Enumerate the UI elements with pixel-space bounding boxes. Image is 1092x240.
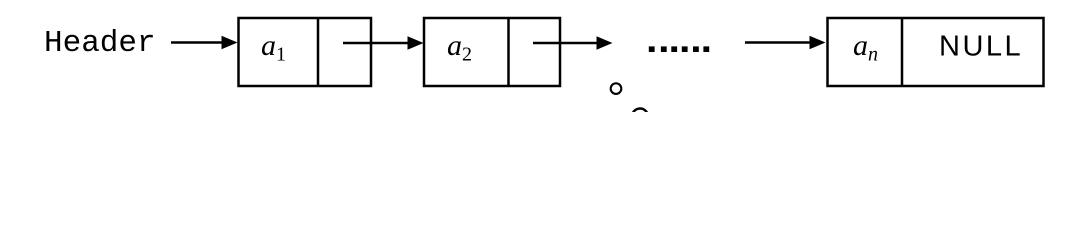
svg-text:NULL: NULL (939, 31, 1023, 63)
svg-text:Header: Header (44, 26, 156, 61)
